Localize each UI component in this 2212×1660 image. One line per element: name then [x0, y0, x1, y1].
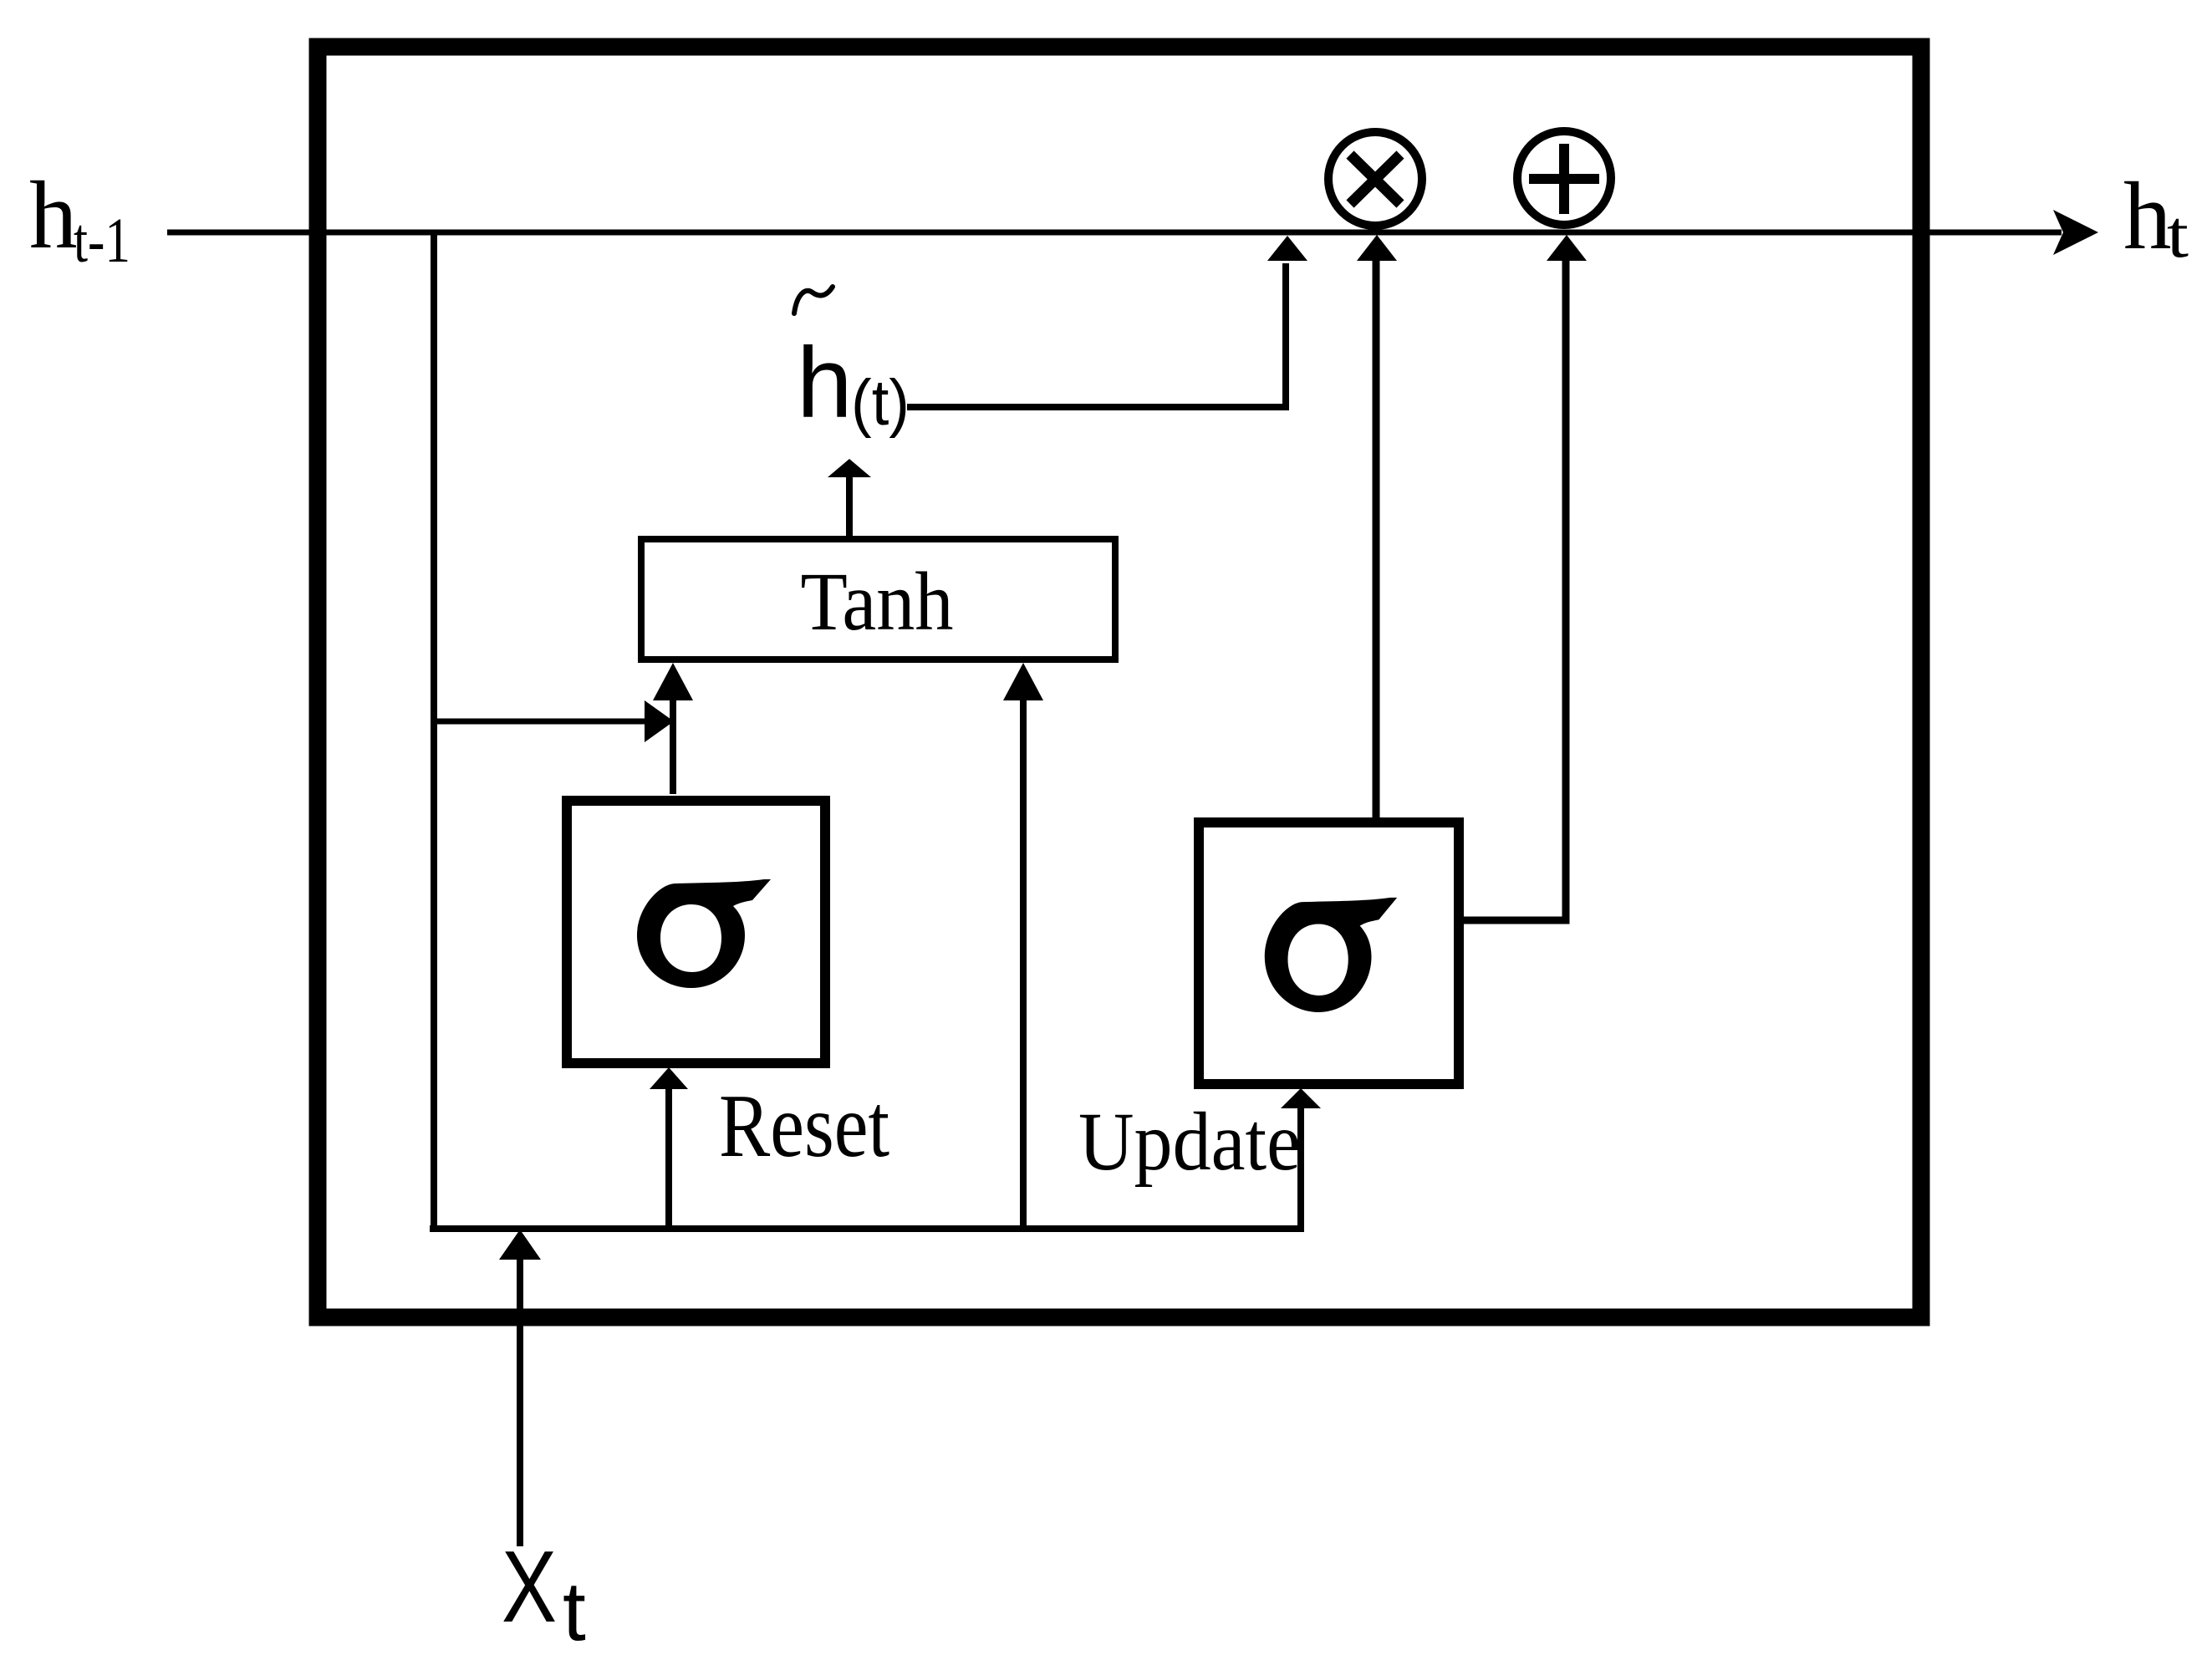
GRU cell outer box: [318, 47, 1921, 1317]
arrowhead into reset: [650, 1067, 688, 1089]
label h_t: [2123, 163, 2189, 272]
arrowhead branch right: [645, 700, 674, 742]
multiplier circle X: [1328, 132, 1422, 226]
svg-text:t: t: [2167, 198, 2189, 272]
svg-text:Reset: Reset: [719, 1077, 889, 1176]
svg-text:h: h: [29, 162, 78, 268]
label sigma reset: [637, 879, 771, 988]
Tanh box: [641, 539, 1115, 659]
sigma box update: [1199, 822, 1459, 1084]
wire bottom bus: [430, 1225, 1301, 1232]
adder circle plus: [1517, 131, 1611, 225]
wire x_t input: [517, 1257, 523, 1546]
arrowhead h_t output: [2053, 210, 2098, 255]
label sigma update: [1265, 898, 1397, 1012]
svg-text:X: X: [502, 1530, 557, 1643]
wire bus into reset: [665, 1087, 672, 1225]
label h~(t): [794, 287, 910, 439]
arrowhead into update: [1281, 1088, 1321, 1108]
wire left stem: [431, 230, 437, 1229]
label h_t-1: [29, 162, 130, 276]
wire update out to adder: [1459, 261, 1566, 920]
arrowhead h~ up: [1267, 236, 1307, 261]
svg-text:t: t: [563, 1565, 586, 1658]
svg-text:(t): (t): [851, 367, 910, 439]
wire branch to reset/tanh: [432, 719, 647, 725]
arrowhead x_t: [499, 1230, 541, 1260]
svg-text:t-1: t-1: [74, 206, 130, 276]
sigma box reset: [567, 801, 825, 1063]
wire update to multiplier: [1373, 259, 1380, 822]
svg-text:Update: Update: [1078, 1095, 1301, 1188]
wire bus to tanh right: [1020, 699, 1027, 1225]
arrowhead update to multiplier: [1357, 235, 1397, 261]
svg-text:h: h: [2123, 163, 2172, 269]
svg-text:h: h: [797, 327, 853, 439]
svg-text:Tanh: Tanh: [801, 555, 954, 648]
wire reset to tanh: [670, 699, 676, 794]
wire tanh top arrow: [846, 473, 853, 539]
wire bus into update: [1297, 1107, 1304, 1232]
wire h line: [167, 230, 2062, 236]
arrowhead into tanh right: [1003, 663, 1043, 700]
label X_t: [502, 1530, 586, 1658]
arrowhead into adder: [1547, 235, 1587, 261]
wire h~ to h line: [907, 263, 1286, 407]
arrowhead into tanh left: [653, 663, 693, 700]
arrowhead tanh out: [828, 459, 871, 477]
